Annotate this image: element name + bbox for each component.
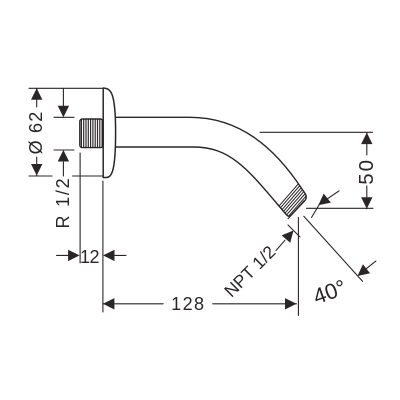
40deg tick at horizontal reference xyxy=(312,199,323,218)
outlet vertical extension line xyxy=(297,218,299,316)
50 dimension line lower segment xyxy=(366,186,368,209)
12 left arrow tail xyxy=(57,254,79,256)
50 down arrowhead xyxy=(361,197,372,209)
50 bottom extension line xyxy=(307,207,374,209)
R1/2 dimension line upper segment xyxy=(62,88,64,106)
svg-text:128: 128 xyxy=(171,294,205,314)
40deg leader 2 arrowhead xyxy=(358,264,371,276)
dia62 bottom extension line right part xyxy=(73,175,104,177)
shower arm body outline xyxy=(116,117,307,216)
R1/2 dimension line lower segment xyxy=(62,162,64,176)
R1/2 bottom tick xyxy=(54,149,74,151)
40deg leader 2 tail xyxy=(361,261,376,273)
40deg leader 1 tail xyxy=(322,191,339,203)
svg-text:12: 12 xyxy=(80,247,100,267)
outlet face extension line xyxy=(288,201,304,219)
outlet thread hatching (NPT 1/2 end) xyxy=(269,180,312,227)
wall flange (escutcheon) xyxy=(103,88,115,178)
NPT tick at outlet axis xyxy=(288,225,300,237)
128 dimension line right segment xyxy=(213,303,297,305)
dia62 down arrowhead xyxy=(31,164,42,176)
dia62 bottom extension line left part xyxy=(29,175,52,177)
40deg angle diagonal reference line xyxy=(304,216,363,281)
50 up arrowhead xyxy=(361,133,372,145)
R1/2 top tick xyxy=(54,116,74,118)
12 left extension line xyxy=(79,153,81,263)
svg-text:50: 50 xyxy=(355,158,378,185)
dia62 up arrowhead xyxy=(31,88,42,100)
40deg leader 1 arrowhead xyxy=(318,194,331,206)
svg-text:Ø 62: Ø 62 xyxy=(26,111,46,155)
50 top extension line xyxy=(260,131,373,133)
wall-side thread body (R 1/2) xyxy=(80,119,103,148)
wall-side thread hatching xyxy=(81,119,102,147)
svg-text:40°: 40° xyxy=(310,274,350,309)
50 dimension line upper segment xyxy=(366,133,368,155)
R1/2 down arrowhead xyxy=(58,106,69,118)
12 right-pointing arrowhead xyxy=(68,250,80,261)
dia62 dimension line lower segment xyxy=(36,157,38,176)
dia62 dimension line upper segment xyxy=(36,88,38,107)
svg-text:NPT 1/2: NPT 1/2 xyxy=(220,242,279,301)
NPT leader tail xyxy=(276,240,285,250)
shared extension line for 12 and 128 xyxy=(102,181,104,312)
12 right arrow tail xyxy=(105,254,127,256)
12 left-pointing arrowhead xyxy=(103,250,115,261)
R1/2 up arrowhead xyxy=(58,150,69,162)
128 right arrowhead xyxy=(285,298,297,309)
NPT leader arrowhead xyxy=(282,231,294,243)
dia62 top extension line xyxy=(29,87,103,89)
128 dimension line left segment xyxy=(103,303,163,305)
128 left arrowhead xyxy=(103,298,115,309)
svg-text:R 1/2: R 1/2 xyxy=(53,176,73,228)
